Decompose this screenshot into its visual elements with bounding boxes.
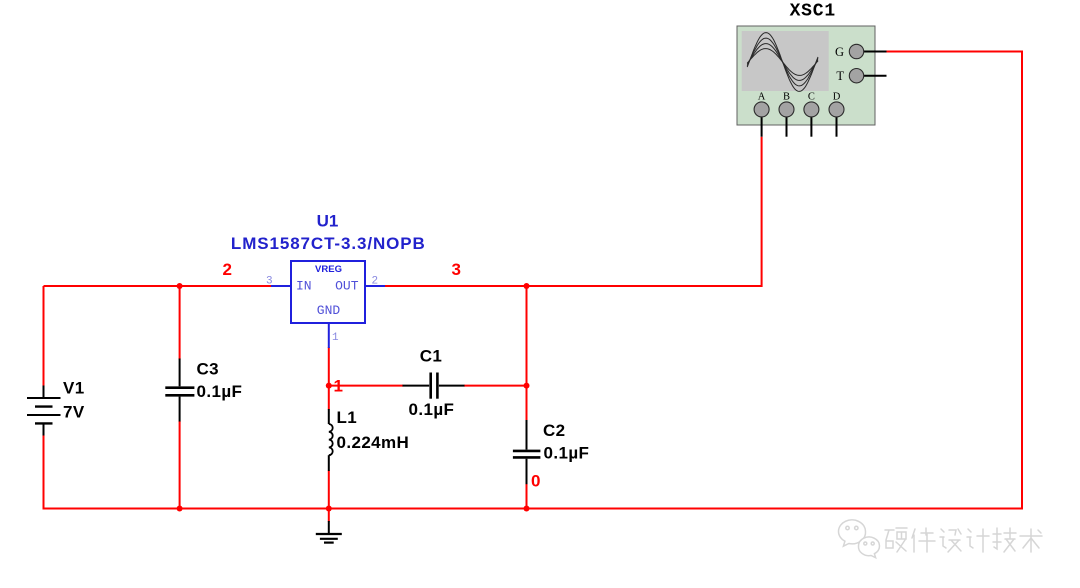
terminal T stub bbox=[857, 75, 887, 77]
terminal T bbox=[849, 69, 863, 83]
wire C3 top red segment bbox=[179, 286, 181, 360]
svg-text:C1: C1 bbox=[420, 347, 443, 366]
junction node3 branch bbox=[524, 283, 530, 289]
svg-text:T: T bbox=[836, 69, 844, 83]
wire vertical branch node3 down to C2 top bbox=[526, 286, 528, 421]
svg-text:IN: IN bbox=[296, 279, 312, 294]
voltage regulator U1 LMS1587CT-3.3/NOPB bbox=[291, 261, 365, 323]
junction node1 at L1 top bbox=[326, 383, 332, 389]
svg-text:U1: U1 bbox=[317, 212, 339, 231]
watermark wechat logo bbox=[839, 520, 880, 558]
wire node 1 horizontal left part to C1 bbox=[329, 385, 403, 387]
svg-text:1: 1 bbox=[332, 332, 339, 344]
svg-text:C2: C2 bbox=[543, 421, 566, 440]
wire U1 GND pin to node 1 and L1 bbox=[328, 347, 330, 410]
battery V1 bbox=[27, 386, 61, 436]
svg-text:3: 3 bbox=[452, 260, 462, 279]
svg-text:G: G bbox=[835, 45, 844, 59]
svg-text:C3: C3 bbox=[197, 360, 220, 379]
terminal A bbox=[754, 102, 769, 117]
svg-text:D: D bbox=[833, 92, 841, 103]
svg-text:2: 2 bbox=[223, 260, 233, 279]
terminal C stub bbox=[810, 109, 812, 136]
svg-text:0.1µF: 0.1µF bbox=[197, 382, 243, 401]
capacitor C2 bbox=[513, 420, 541, 484]
svg-text:VREG: VREG bbox=[315, 264, 342, 275]
junction node1 at C1 right bbox=[524, 383, 530, 389]
wire node 3 from U1 OUT pin to scope A drop bbox=[385, 137, 762, 286]
wire bottom ground rail bbox=[43, 508, 1024, 510]
svg-text:LMS1587CT-3.3/NOPB: LMS1587CT-3.3/NOPB bbox=[231, 234, 426, 253]
wire left rail lower from V1 to bottom rail bbox=[43, 435, 45, 509]
svg-text:OUT: OUT bbox=[335, 279, 359, 294]
svg-text:1: 1 bbox=[334, 377, 344, 396]
inductor L1 bbox=[329, 409, 333, 471]
wire from scope G terminal to right rail bbox=[887, 51, 1024, 53]
terminal G stub bbox=[857, 51, 887, 53]
svg-text:0.1µF: 0.1µF bbox=[409, 400, 455, 419]
svg-text:XSC1: XSC1 bbox=[790, 2, 836, 22]
svg-text:3: 3 bbox=[266, 276, 273, 288]
svg-text:0.224mH: 0.224mH bbox=[337, 433, 410, 452]
U1 pin 3 stub bbox=[271, 285, 291, 287]
svg-text:L1: L1 bbox=[337, 408, 358, 427]
junction node2 at C3 top bbox=[177, 283, 183, 289]
wire node 1 horizontal right part C1 to branch bbox=[464, 385, 527, 387]
wire C3 bottom red segment bbox=[179, 421, 181, 509]
terminal B bbox=[779, 102, 794, 117]
wire right rail up to scope G bbox=[1021, 52, 1023, 509]
oscilloscope XSC1 bbox=[737, 26, 875, 125]
svg-text:C: C bbox=[808, 92, 815, 103]
terminal A stub bbox=[761, 109, 763, 136]
junction ground rail at C2 bbox=[524, 506, 530, 512]
svg-text:A: A bbox=[758, 92, 766, 103]
junction ground rail at C3 bbox=[177, 506, 183, 512]
wire left rail upper from top node to V1 bbox=[43, 286, 45, 386]
svg-text:0: 0 bbox=[531, 471, 541, 490]
U1 pin 2 stub bbox=[365, 285, 385, 287]
terminal B stub bbox=[786, 109, 788, 136]
U1 pin 1 stub bbox=[328, 323, 330, 348]
terminal D stub bbox=[836, 109, 838, 136]
capacitor C1 bbox=[403, 373, 465, 399]
ground bbox=[316, 521, 342, 543]
wire C2 bottom to ground rail bbox=[526, 484, 528, 509]
watermark text bbox=[885, 528, 1042, 552]
wire ground stub red below rail bbox=[328, 509, 330, 522]
svg-text:7V: 7V bbox=[63, 403, 85, 422]
svg-text:2: 2 bbox=[372, 276, 379, 288]
svg-text:GND: GND bbox=[317, 303, 341, 318]
svg-text:0.1µF: 0.1µF bbox=[544, 444, 590, 463]
wire top segment node 2 from left rail to U1 IN pin bbox=[44, 285, 272, 287]
terminal C bbox=[804, 102, 819, 117]
svg-text:B: B bbox=[783, 92, 790, 103]
capacitor C3 bbox=[165, 359, 194, 422]
wire L1 bottom to ground rail bbox=[328, 471, 330, 509]
junction ground rail at L1 bbox=[326, 506, 332, 512]
svg-text:V1: V1 bbox=[63, 379, 85, 398]
terminal G bbox=[849, 44, 863, 58]
terminal D bbox=[829, 102, 844, 117]
